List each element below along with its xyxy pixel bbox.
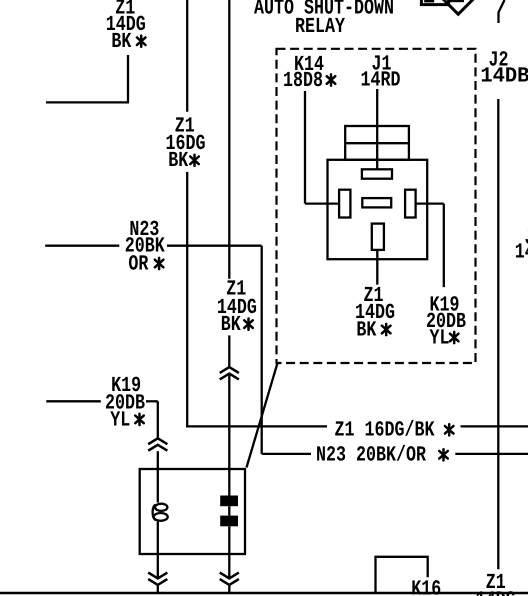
svg-text:OR: OR bbox=[128, 253, 148, 277]
svg-text:YL: YL bbox=[110, 409, 130, 433]
svg-text:BK: BK bbox=[356, 319, 376, 343]
svg-text:RELAY: RELAY bbox=[295, 15, 345, 39]
svg-text:YL: YL bbox=[430, 326, 450, 350]
svg-text:14RD: 14RD bbox=[361, 69, 401, 93]
svg-text:18D8: 18D8 bbox=[283, 69, 323, 93]
svg-text:N23 20BK/OR: N23 20BK/OR bbox=[316, 443, 426, 467]
svg-text:14DB: 14DB bbox=[480, 64, 528, 88]
svg-text:BK: BK bbox=[221, 313, 241, 337]
svg-text:14DB: 14DB bbox=[515, 240, 528, 264]
svg-text:K16: K16 bbox=[411, 578, 441, 596]
svg-text:BK: BK bbox=[168, 149, 188, 173]
svg-text:BK: BK bbox=[111, 30, 131, 54]
svg-text:14DG: 14DG bbox=[476, 588, 516, 596]
svg-text:Z1 16DG/BK: Z1 16DG/BK bbox=[335, 419, 435, 443]
